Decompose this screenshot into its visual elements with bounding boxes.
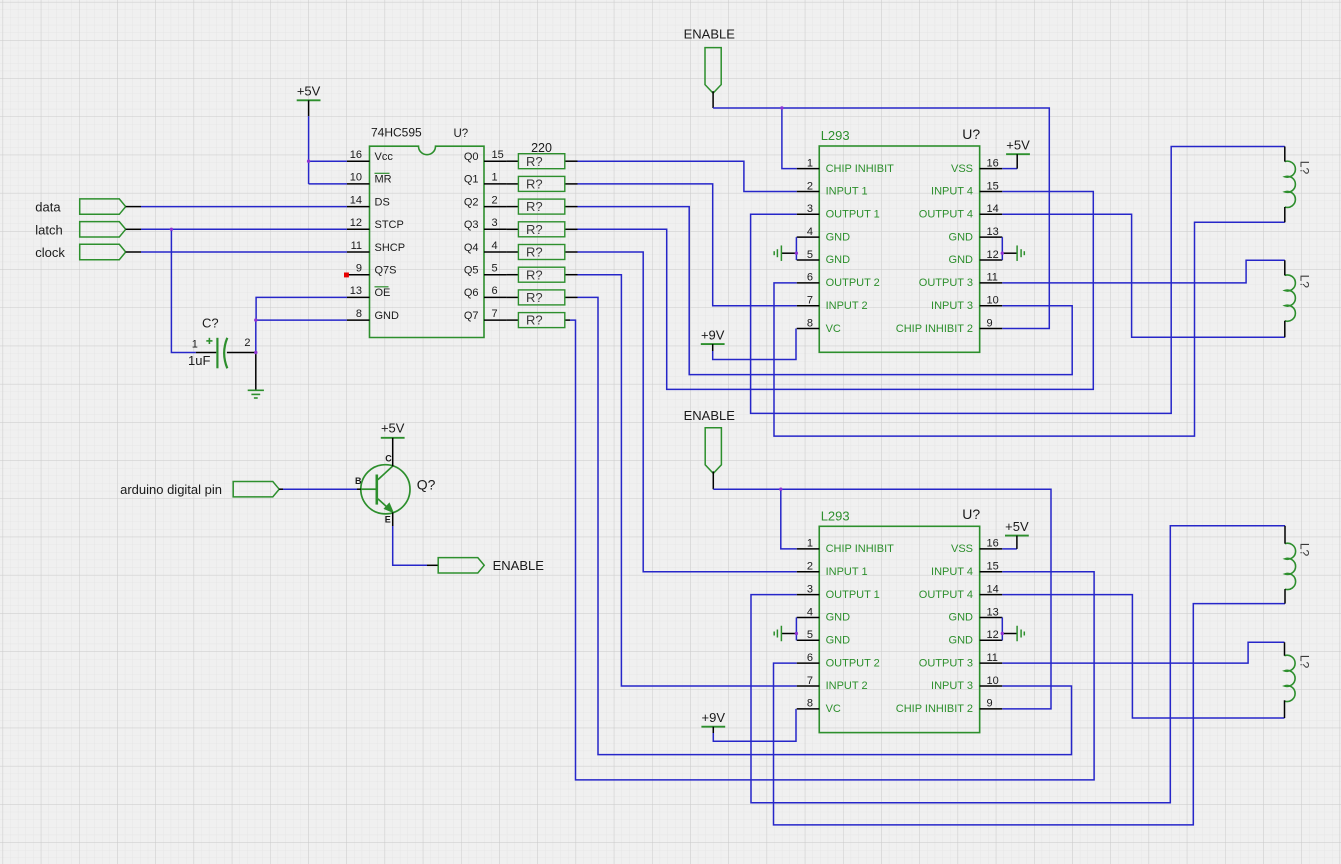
connector ENABLE (transistor emitter) (438, 558, 484, 573)
svg-text:C?: C? (202, 316, 219, 331)
connector ENABLE (top) (705, 48, 721, 94)
svg-text:GND: GND (949, 635, 974, 647)
svg-text:MR: MR (375, 174, 392, 186)
wire to MR pin 10 (309, 183, 347, 185)
svg-text:6: 6 (807, 652, 813, 664)
svg-text:latch: latch (35, 222, 62, 237)
svg-text:12: 12 (987, 629, 999, 641)
node ENABLE top junction (780, 106, 783, 109)
74HC595 pin 13 (OE) stub (347, 296, 370, 298)
svg-text:5: 5 (492, 263, 498, 275)
svg-text:OUTPUT 4: OUTPUT 4 (919, 209, 973, 221)
L293 #1 pin 9 (CHIP INHIBIT 2) stub (980, 328, 1003, 330)
connector clock (80, 244, 126, 259)
node L293#2 GND left junction (795, 632, 798, 635)
svg-text:9: 9 (987, 317, 993, 329)
inductor L? #4 coil (1285, 655, 1296, 701)
node ENABLE middle junction (779, 488, 782, 491)
svg-text:CHIP INHIBIT 2: CHIP INHIBIT 2 (896, 323, 973, 335)
svg-text:OUTPUT 3: OUTPUT 3 (919, 277, 973, 289)
svg-text:R?: R? (526, 154, 543, 169)
wire latch to STCP (126, 228, 141, 230)
wire Q4 resistor to L293#2 INPUT 1 (578, 252, 797, 572)
connector latch (80, 222, 126, 237)
wire data to DS (126, 206, 141, 208)
svg-text:3: 3 (807, 203, 813, 215)
svg-text:U?: U? (962, 506, 980, 522)
svg-text:CHIP INHIBIT: CHIP INHIBIT (826, 543, 895, 555)
wire +5V vertical to Vcc and MR (308, 116, 310, 184)
L293 #1 pin 7 (INPUT 2) stub (797, 305, 820, 307)
L293 #2 pin 2 (INPUT 1) stub (797, 571, 820, 573)
svg-text:Q2: Q2 (464, 196, 479, 208)
svg-text:8: 8 (356, 308, 362, 320)
node L293#1 GND left junction (795, 252, 798, 255)
svg-text:+5V: +5V (381, 420, 405, 435)
svg-text:1uF: 1uF (188, 353, 210, 368)
wire L293#1 OUTPUT 2 to inductor L1 bottom (774, 222, 1285, 436)
L293 #1 pin 1 (CHIP INHIBIT) stub (797, 168, 820, 170)
wire arduino digital pin to transistor base (279, 488, 283, 490)
wire +5V to transistor collector (392, 438, 394, 467)
svg-text:arduino digital pin: arduino digital pin (120, 482, 222, 497)
svg-text:2: 2 (492, 194, 498, 206)
L293 #2 pin 14 (OUTPUT 4) stub (980, 594, 1003, 596)
connector data (80, 199, 126, 214)
node latch junction (170, 228, 173, 231)
74HC595 pin 8 (GND) stub (347, 319, 370, 321)
svg-text:+5V: +5V (1006, 138, 1030, 153)
svg-text:R?: R? (526, 267, 543, 282)
svg-text:15: 15 (492, 149, 504, 161)
svg-text:OUTPUT 4: OUTPUT 4 (919, 589, 973, 601)
wire L293#2 OUTPUT 2 to inductor L3 bottom (774, 604, 1286, 825)
svg-text:4: 4 (807, 606, 813, 618)
74HC595 pin 11 (SHCP) stub (347, 251, 370, 253)
svg-text:Vcc: Vcc (375, 151, 394, 163)
wire ground net vertical to capacitor pin 2 (255, 320, 257, 352)
L293 #1 pin 12 (GND) stub (980, 259, 1003, 261)
svg-text:14: 14 (987, 203, 999, 215)
svg-text:7: 7 (807, 295, 813, 307)
wire ENABLE top to L293#1 CHIP INHIBIT 2 (713, 108, 1049, 329)
svg-text:GND: GND (826, 612, 851, 624)
svg-text:VSS: VSS (951, 543, 973, 555)
svg-text:16: 16 (987, 538, 999, 550)
svg-text:1: 1 (492, 172, 498, 184)
74HC595 pin 12 (STCP) stub (347, 228, 370, 230)
ground symbol (L293 #1 right) (1002, 252, 1017, 254)
74HC595 pin 10 (MR) stub (347, 183, 370, 185)
74HC595 OE overline (375, 286, 389, 288)
wire L293#2 GND bracket right (1001, 617, 1003, 640)
connector arduino digital pin (233, 482, 279, 497)
svg-text:Q0: Q0 (464, 151, 479, 163)
L293 #2 pin 8 (VC) stub (797, 708, 820, 710)
svg-text:14: 14 (987, 583, 999, 595)
svg-text:INPUT 3: INPUT 3 (931, 300, 973, 312)
svg-text:OUTPUT 2: OUTPUT 2 (826, 657, 880, 669)
svg-text:7: 7 (492, 308, 498, 320)
wire L293#1 GND bracket right (1001, 237, 1003, 260)
resistor R? #4 (output Q3) (507, 228, 519, 230)
transistor Q? (NPN) (361, 465, 410, 514)
wire Q7 resistor to L293#2 INPUT 4 (570, 320, 1094, 780)
svg-text:9: 9 (987, 698, 993, 710)
L293 #2 pin 9 (CHIP INHIBIT 2) stub (980, 708, 1003, 710)
svg-text:U?: U? (454, 128, 469, 140)
resistor R? #3 (output Q2) (507, 206, 519, 208)
IC U? L293 #1 body (819, 146, 979, 352)
svg-text:ENABLE: ENABLE (684, 26, 736, 41)
svg-text:OUTPUT 1: OUTPUT 1 (826, 589, 880, 601)
svg-text:SHCP: SHCP (375, 242, 406, 254)
wire clock to SHCP (126, 251, 141, 253)
svg-text:8: 8 (807, 698, 813, 710)
svg-text:VC: VC (826, 703, 841, 715)
svg-text:L293: L293 (821, 128, 850, 143)
wire ENABLE top branch to L293#1 CHIP INHIBIT (782, 108, 797, 169)
74HC595 pin 5 (Q5) stub (484, 274, 507, 276)
svg-text:13: 13 (987, 226, 999, 238)
svg-text:13: 13 (987, 606, 999, 618)
wire L293#1 OUTPUT 3 to inductor L2 top (1002, 260, 1285, 283)
wire latch junction down to capacitor pin 1 (171, 229, 195, 352)
svg-text:74HC595: 74HC595 (371, 126, 422, 140)
L293 #2 pin 6 (OUTPUT 2) stub (797, 662, 820, 664)
svg-text:INPUT 1: INPUT 1 (826, 186, 868, 198)
svg-text:GND: GND (949, 231, 974, 243)
svg-text:2: 2 (807, 180, 813, 192)
svg-text:Q6: Q6 (464, 287, 479, 299)
L293 #2 pin 12 (GND) stub (980, 639, 1003, 641)
svg-text:9: 9 (356, 263, 362, 275)
wire ENABLE middle connector stub (712, 471, 714, 489)
svg-text:INPUT 2: INPUT 2 (826, 300, 868, 312)
svg-text:+9V: +9V (702, 710, 726, 725)
svg-text:Q7S: Q7S (375, 265, 397, 277)
resistor R? #7 (output Q6) (507, 296, 519, 298)
svg-text:Q7: Q7 (464, 310, 479, 322)
node OE/GND junction (254, 318, 257, 321)
resistor R? #5 (output Q4) (507, 251, 519, 253)
wire L293#2 VSS to +5V (1002, 548, 1017, 550)
svg-text:L?: L? (1298, 161, 1312, 175)
wire L293#2 VC to +9V (712, 727, 714, 733)
wire to Vcc pin 16 (309, 160, 347, 162)
svg-text:clock: clock (35, 245, 65, 260)
resistor R? #6 (output Q5) (507, 274, 519, 276)
svg-text:CHIP INHIBIT 2: CHIP INHIBIT 2 (896, 703, 973, 715)
resistor R? #1 (output Q0) (507, 160, 519, 162)
svg-text:Q1: Q1 (464, 174, 479, 186)
svg-text:4: 4 (807, 226, 813, 238)
resistor R? #2 (output Q1) (507, 183, 519, 185)
svg-text:1: 1 (807, 157, 813, 169)
inductor L? #1 coil (1285, 161, 1296, 207)
74HC595 pin 3 (Q3) stub (484, 228, 507, 230)
svg-text:VC: VC (826, 323, 841, 335)
wire transistor emitter to ENABLE connector (392, 512, 394, 526)
svg-text:10: 10 (987, 675, 999, 687)
inductor L? #2 coil (1285, 275, 1296, 321)
L293 #1 pin 3 (OUTPUT 1) stub (797, 213, 820, 215)
svg-text:OUTPUT 1: OUTPUT 1 (826, 209, 880, 221)
svg-text:Q4: Q4 (464, 242, 479, 254)
svg-text:12: 12 (987, 249, 999, 261)
svg-text:OUTPUT 2: OUTPUT 2 (826, 277, 880, 289)
wire L293#1 GND bracket left (795, 237, 797, 260)
capacitor C? 1uF (196, 352, 217, 354)
L293 #1 pin 16 (VSS) stub (980, 168, 1003, 170)
connector ENABLE (middle) (705, 428, 721, 474)
svg-text:R?: R? (526, 313, 543, 328)
wire GND pin 8 to ground net (256, 319, 347, 321)
wire L293#1 VC to +9V (712, 344, 714, 351)
wire ENABLE middle to L293#2 CHIP INHIBIT 2 (713, 489, 1051, 709)
L293 #2 pin 15 (INPUT 4) stub (980, 571, 1003, 573)
74HC595 pin 2 (Q2) stub (484, 206, 507, 208)
svg-text:DS: DS (375, 196, 390, 208)
svg-text:1: 1 (192, 339, 198, 351)
svg-text:11: 11 (987, 272, 998, 284)
L293 #2 pin 4 (GND) stub (797, 616, 820, 618)
node +5V/Vcc junction (307, 160, 310, 163)
IC U? 74HC595 body (370, 146, 485, 337)
wire +5V to 74HC595 Vcc/MR (black power stub) (308, 100, 310, 116)
resistor R? #8 (output Q7) (507, 319, 519, 321)
inductor L? #3 coil (1285, 543, 1296, 589)
L293 #2 pin 10 (INPUT 3) stub (980, 685, 1003, 687)
svg-text:Q3: Q3 (464, 219, 479, 231)
svg-text:Q?: Q? (417, 476, 436, 492)
unconnected pin marker Q7S (red square) (344, 273, 349, 278)
L293 #1 pin 6 (OUTPUT 2) stub (797, 282, 820, 284)
svg-text:L?: L? (1298, 655, 1312, 669)
svg-text:ENABLE: ENABLE (684, 408, 736, 423)
L293 #1 pin 11 (OUTPUT 3) stub (980, 282, 1003, 284)
wire L293#1 VSS to +5V (1002, 168, 1017, 170)
74HC595 pin 15 (Q0) stub (484, 160, 507, 162)
svg-text:INPUT 1: INPUT 1 (826, 566, 868, 578)
node L293#2 GND right junction (1001, 632, 1004, 635)
L293 #2 pin 1 (CHIP INHIBIT) stub (797, 548, 820, 550)
svg-text:C: C (385, 454, 392, 464)
74HC595 pin 14 (DS) stub (347, 206, 370, 208)
svg-text:STCP: STCP (375, 219, 404, 231)
wire L293#1 OUTPUT 1 to inductor L1 top (751, 147, 1285, 414)
svg-text:11: 11 (987, 652, 998, 664)
svg-text:4: 4 (492, 240, 498, 252)
wire Q0 resistor to L293#1 INPUT 1 (578, 161, 797, 191)
node capacitor pin2 junction (254, 351, 257, 354)
svg-text:INPUT 4: INPUT 4 (931, 566, 973, 578)
svg-text:15: 15 (987, 180, 999, 192)
svg-text:OE: OE (375, 287, 391, 299)
ground symbol (below capacitor) (255, 353, 257, 391)
svg-text:220: 220 (531, 141, 552, 155)
svg-text:INPUT 3: INPUT 3 (931, 680, 973, 692)
ground symbol (L293 #1 left) (782, 252, 797, 254)
svg-text:L?: L? (1298, 543, 1312, 557)
svg-text:6: 6 (807, 272, 813, 284)
svg-text:10: 10 (987, 295, 999, 307)
L293 #2 pin 13 (GND) stub (980, 616, 1003, 618)
74HC595 pin 1 (Q1) stub (484, 183, 507, 185)
wire Q3 resistor to L293#1 INPUT 4 (578, 191, 1094, 389)
svg-text:R?: R? (526, 199, 543, 214)
L293 #1 pin 10 (INPUT 3) stub (980, 305, 1003, 307)
wire L293#2 OUTPUT 4 to inductor L4 bottom (1002, 595, 1284, 718)
svg-text:R?: R? (526, 222, 543, 237)
wire L293#2 OUTPUT 1 to inductor L3 top (751, 526, 1285, 803)
svg-text:GND: GND (826, 254, 851, 266)
svg-text:+5V: +5V (1005, 519, 1029, 534)
svg-text:7: 7 (807, 675, 813, 687)
svg-text:GND: GND (826, 231, 851, 243)
svg-text:VSS: VSS (951, 163, 973, 175)
wire OE to ground net (256, 297, 347, 320)
ground symbol (L293 #2 right) (1002, 633, 1017, 635)
L293 #2 pin 3 (OUTPUT 1) stub (797, 594, 820, 596)
wire Q6 resistor to L293#2 INPUT 3 (578, 297, 1072, 754)
svg-text:10: 10 (350, 172, 362, 184)
svg-text:+5V: +5V (297, 84, 321, 99)
wire Q5 resistor to L293#2 INPUT 2 (578, 275, 797, 686)
74HC595 pin 6 (Q6) stub (484, 296, 507, 298)
svg-text:6: 6 (492, 285, 498, 297)
svg-text:1: 1 (807, 538, 813, 550)
svg-text:L293: L293 (821, 509, 850, 524)
L293 #1 pin 14 (OUTPUT 4) stub (980, 213, 1003, 215)
wire ENABLE middle branch to L293#2 CHIP INHIBIT (781, 489, 797, 549)
svg-text:+9V: +9V (701, 328, 725, 343)
wire ENABLE top connector stub (712, 91, 714, 108)
svg-text:Q5: Q5 (464, 265, 479, 277)
svg-text:U?: U? (962, 126, 980, 142)
svg-text:ENABLE: ENABLE (493, 558, 545, 573)
wire L293#1 OUTPUT 4 to inductor L2 bottom (1002, 214, 1285, 337)
L293 #1 pin 8 (VC) stub (797, 328, 820, 330)
svg-text:GND: GND (949, 254, 974, 266)
svg-text:5: 5 (807, 249, 813, 261)
svg-text:5: 5 (807, 629, 813, 641)
L293 #1 pin 5 (GND) stub (797, 259, 820, 261)
svg-text:GND: GND (375, 310, 400, 322)
L293 #1 pin 15 (INPUT 4) stub (980, 190, 1003, 192)
74HC595 pin 16 (Vcc) stub (347, 160, 370, 162)
ground symbol (L293 #2 left) (782, 633, 797, 635)
svg-text:GND: GND (949, 612, 974, 624)
wire L293#2 OUTPUT 3 to inductor L4 top (1002, 642, 1284, 663)
svg-text:B: B (355, 476, 362, 486)
L293 #2 pin 7 (INPUT 2) stub (797, 685, 820, 687)
svg-text:3: 3 (492, 217, 498, 229)
svg-text:3: 3 (807, 583, 813, 595)
svg-text:12: 12 (350, 217, 362, 229)
svg-text:13: 13 (350, 285, 362, 297)
node L293#1 GND right junction (1001, 252, 1004, 255)
L293 #1 pin 4 (GND) stub (797, 236, 820, 238)
L293 #1 pin 2 (INPUT 1) stub (797, 190, 820, 192)
wire Q2 resistor to L293#1 INPUT 3 (578, 207, 1073, 375)
IC U? L293 #2 body (819, 526, 979, 732)
svg-text:R?: R? (526, 245, 543, 260)
L293 #2 pin 11 (OUTPUT 3) stub (980, 662, 1003, 664)
74HC595 MR overline (375, 172, 390, 174)
wire Q1 resistor to L293#1 INPUT 2 (578, 184, 797, 306)
svg-text:8: 8 (807, 317, 813, 329)
L293 #1 pin 13 (GND) stub (980, 236, 1003, 238)
74HC595 pin 7 (Q7) stub (484, 319, 507, 321)
L293 #2 pin 16 (VSS) stub (980, 548, 1003, 550)
svg-text:INPUT 4: INPUT 4 (931, 186, 973, 198)
svg-text:GND: GND (826, 635, 851, 647)
svg-text:INPUT 2: INPUT 2 (826, 680, 868, 692)
svg-text:OUTPUT 3: OUTPUT 3 (919, 657, 973, 669)
svg-text:CHIP INHIBIT: CHIP INHIBIT (826, 163, 895, 175)
wire L293#2 GND bracket left (795, 617, 797, 640)
74HC595 pin 4 (Q4) stub (484, 251, 507, 253)
svg-text:data: data (35, 200, 61, 215)
svg-text:16: 16 (987, 157, 999, 169)
svg-text:R?: R? (526, 290, 543, 305)
svg-text:L?: L? (1298, 275, 1312, 289)
74HC595 pin 9 (Q7S) stub (347, 274, 370, 276)
svg-text:11: 11 (351, 240, 362, 252)
svg-text:2: 2 (244, 337, 250, 349)
svg-text:15: 15 (987, 561, 999, 573)
svg-text:14: 14 (350, 194, 362, 206)
svg-text:R?: R? (526, 177, 543, 192)
L293 #2 pin 5 (GND) stub (797, 639, 820, 641)
svg-text:16: 16 (350, 149, 362, 161)
svg-text:E: E (385, 515, 391, 525)
svg-text:2: 2 (807, 561, 813, 573)
